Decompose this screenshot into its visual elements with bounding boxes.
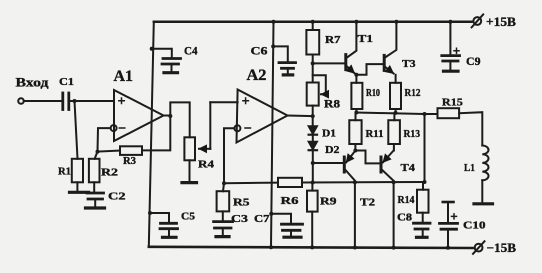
svg-text:−15В: −15В [487,241,517,255]
ground (R4) [182,181,197,184]
wire: R8 to D1 [312,106,314,127]
capacitor C2 [87,193,104,199]
wire: junction to R2 [95,152,98,159]
ground (C9) [444,70,459,73]
capacitor C1 [63,93,69,110]
svg-text:R8: R8 [324,99,340,111]
node junction [73,99,77,103]
svg-text:R10: R10 [366,88,380,99]
wire: to T2 base [313,162,343,164]
ground (C8) [417,236,428,239]
svg-text:R4: R4 [198,159,215,171]
ground (C2) [86,206,105,209]
diode D1 [309,126,317,133]
pin - of A2 [245,127,251,129]
wire: A1 supply vertical [149,22,154,247]
transistor T3 [383,55,386,70]
svg-text:R12: R12 [405,88,421,99]
terminal +15V [472,14,516,28]
wire: to T1 base [313,62,345,64]
svg-text:R11: R11 [366,129,384,140]
transistor T2 [354,144,356,151]
ground (C4) [164,71,178,74]
wire: output node down to R14 [424,114,426,182]
wire: A2 output [288,115,313,118]
wire: R7 bottom to R8 [312,55,314,83]
transistor T4 [380,157,383,172]
op-amp A2 [237,90,288,143]
resistor R12 [390,83,401,109]
svg-text:R9: R9 [320,196,337,208]
ground (C6) [283,73,292,76]
wire: R4 wiper from A2 + input line [209,102,211,149]
svg-text:L1: L1 [464,162,475,174]
diode D2 [309,142,317,149]
wire: down to mid line [312,163,314,183]
pin + of A2 [243,98,249,104]
svg-text:Вход: Вход [16,74,49,89]
svg-text:C1: C1 [59,76,74,88]
node junction T1 base tee [311,61,315,65]
resistor R2 [89,159,100,183]
wire: R9 to -15V rail [311,212,313,248]
resistor R5 [223,183,224,191]
svg-text:R7: R7 [325,34,341,46]
wire: -15V bottom rail [149,247,475,248]
wire: T1 emitter to T3 base [356,64,383,75]
svg-text:T4: T4 [401,162,416,174]
svg-text:R14: R14 [398,195,416,206]
svg-text:T2: T2 [360,197,376,209]
node junction [311,181,315,185]
wire: A1 apex to junction [164,115,171,117]
resistor R7 [311,20,315,24]
ground (C7) [284,236,301,239]
svg-text:R5: R5 [233,197,250,209]
svg-text:D1: D1 [322,128,336,140]
wire: output line [355,109,357,113]
potentiometer R8 wiper hook [313,75,326,94]
svg-text:R6: R6 [281,195,300,207]
wire: T2 emitter to T4 base [355,151,380,164]
svg-text:T1: T1 [358,33,374,45]
capacitor C6 [271,44,275,48]
node junction feedback [222,181,226,185]
op-amp A1 [114,90,164,141]
ground (L1 / output) [474,202,493,205]
wire: input to C1 [24,100,62,102]
capacitor C3 [222,211,224,220]
pin - of A1 [119,127,125,129]
node: A1 inverting input circle [111,125,117,131]
wire: A2 - input down to feedback node [224,128,234,183]
resistor R11 [355,113,357,121]
svg-text:C6: C6 [251,46,268,58]
potentiometer R4 [184,137,195,160]
svg-text:A2: A2 [247,67,267,84]
svg-text:C2: C2 [108,191,126,203]
resistor R15 [438,108,460,118]
capacitor C7 [269,212,273,216]
wire: junction down to R1 [75,101,78,159]
svg-text:C3: C3 [231,213,249,225]
wire: R3 right to A1 output [142,116,170,150]
wire: feedback node to R6 [224,182,278,185]
svg-text:R13: R13 [404,129,421,140]
ground (R1) [70,191,89,194]
svg-text:R1: R1 [58,166,71,178]
wire: R4 to ground [189,160,191,181]
svg-text:C7: C7 [254,213,270,225]
capacitor C9 [448,20,452,24]
node junction T2 base tee [311,161,315,165]
ground (C5) [163,236,177,239]
ground (C3) [216,235,229,238]
resistor R6 [278,178,302,187]
node junction R2/R3 [96,150,100,154]
wire: +15V top rail [154,21,472,24]
svg-text:A1: A1 [114,68,134,85]
resistor R1 [72,159,83,183]
pin + of A1 [119,98,125,104]
resistor R3 [98,151,121,152]
svg-text:C8: C8 [397,213,412,224]
resistor R14 [422,182,424,190]
svg-text:D2: D2 [325,144,340,156]
capacitor C8 [422,213,424,222]
node: A2 output junction [311,114,315,118]
wire: R2 to C2 [93,182,95,192]
wire: R1 to ground [76,182,78,191]
wire: A1 - input to R2/R3 node [98,128,111,152]
node: A1 output junction [168,114,172,118]
node: A2 inverting input circle [234,125,240,131]
wire: A2 supply vertical [271,22,274,247]
svg-text:C9: C9 [466,56,481,68]
svg-text:R15: R15 [442,97,464,109]
node junction A2 supply on -15 rail [269,245,273,249]
wire: L1 down [481,180,483,202]
svg-text:R2: R2 [101,167,119,179]
transistor T1 [344,55,347,70]
node: input terminal [18,98,24,104]
wire: R15 to L1 [459,112,482,145]
terminal -15V [473,241,516,255]
capacitor C5 [148,211,152,215]
wire: A1 output over to R4 top [170,102,189,137]
resistor R8 [307,83,319,106]
inductor L1 [482,146,488,181]
svg-text:R3: R3 [123,156,136,167]
svg-text:C4: C4 [184,45,198,57]
resistor R13 [393,113,395,120]
wire: C1 to A1 + input [69,100,114,102]
resistor R9 [311,183,313,191]
svg-text:T3: T3 [402,58,416,70]
capacitor C4 [150,47,154,51]
wire: A2 + input from R4 wiper [210,101,237,103]
resistor R10 [351,83,362,109]
svg-text:+15В: +15В [486,15,516,29]
svg-text:C5: C5 [181,212,195,223]
svg-text:C10: C10 [463,221,486,232]
wire: R6 to mid line [302,181,425,184]
ground (C10 top) [443,201,454,204]
